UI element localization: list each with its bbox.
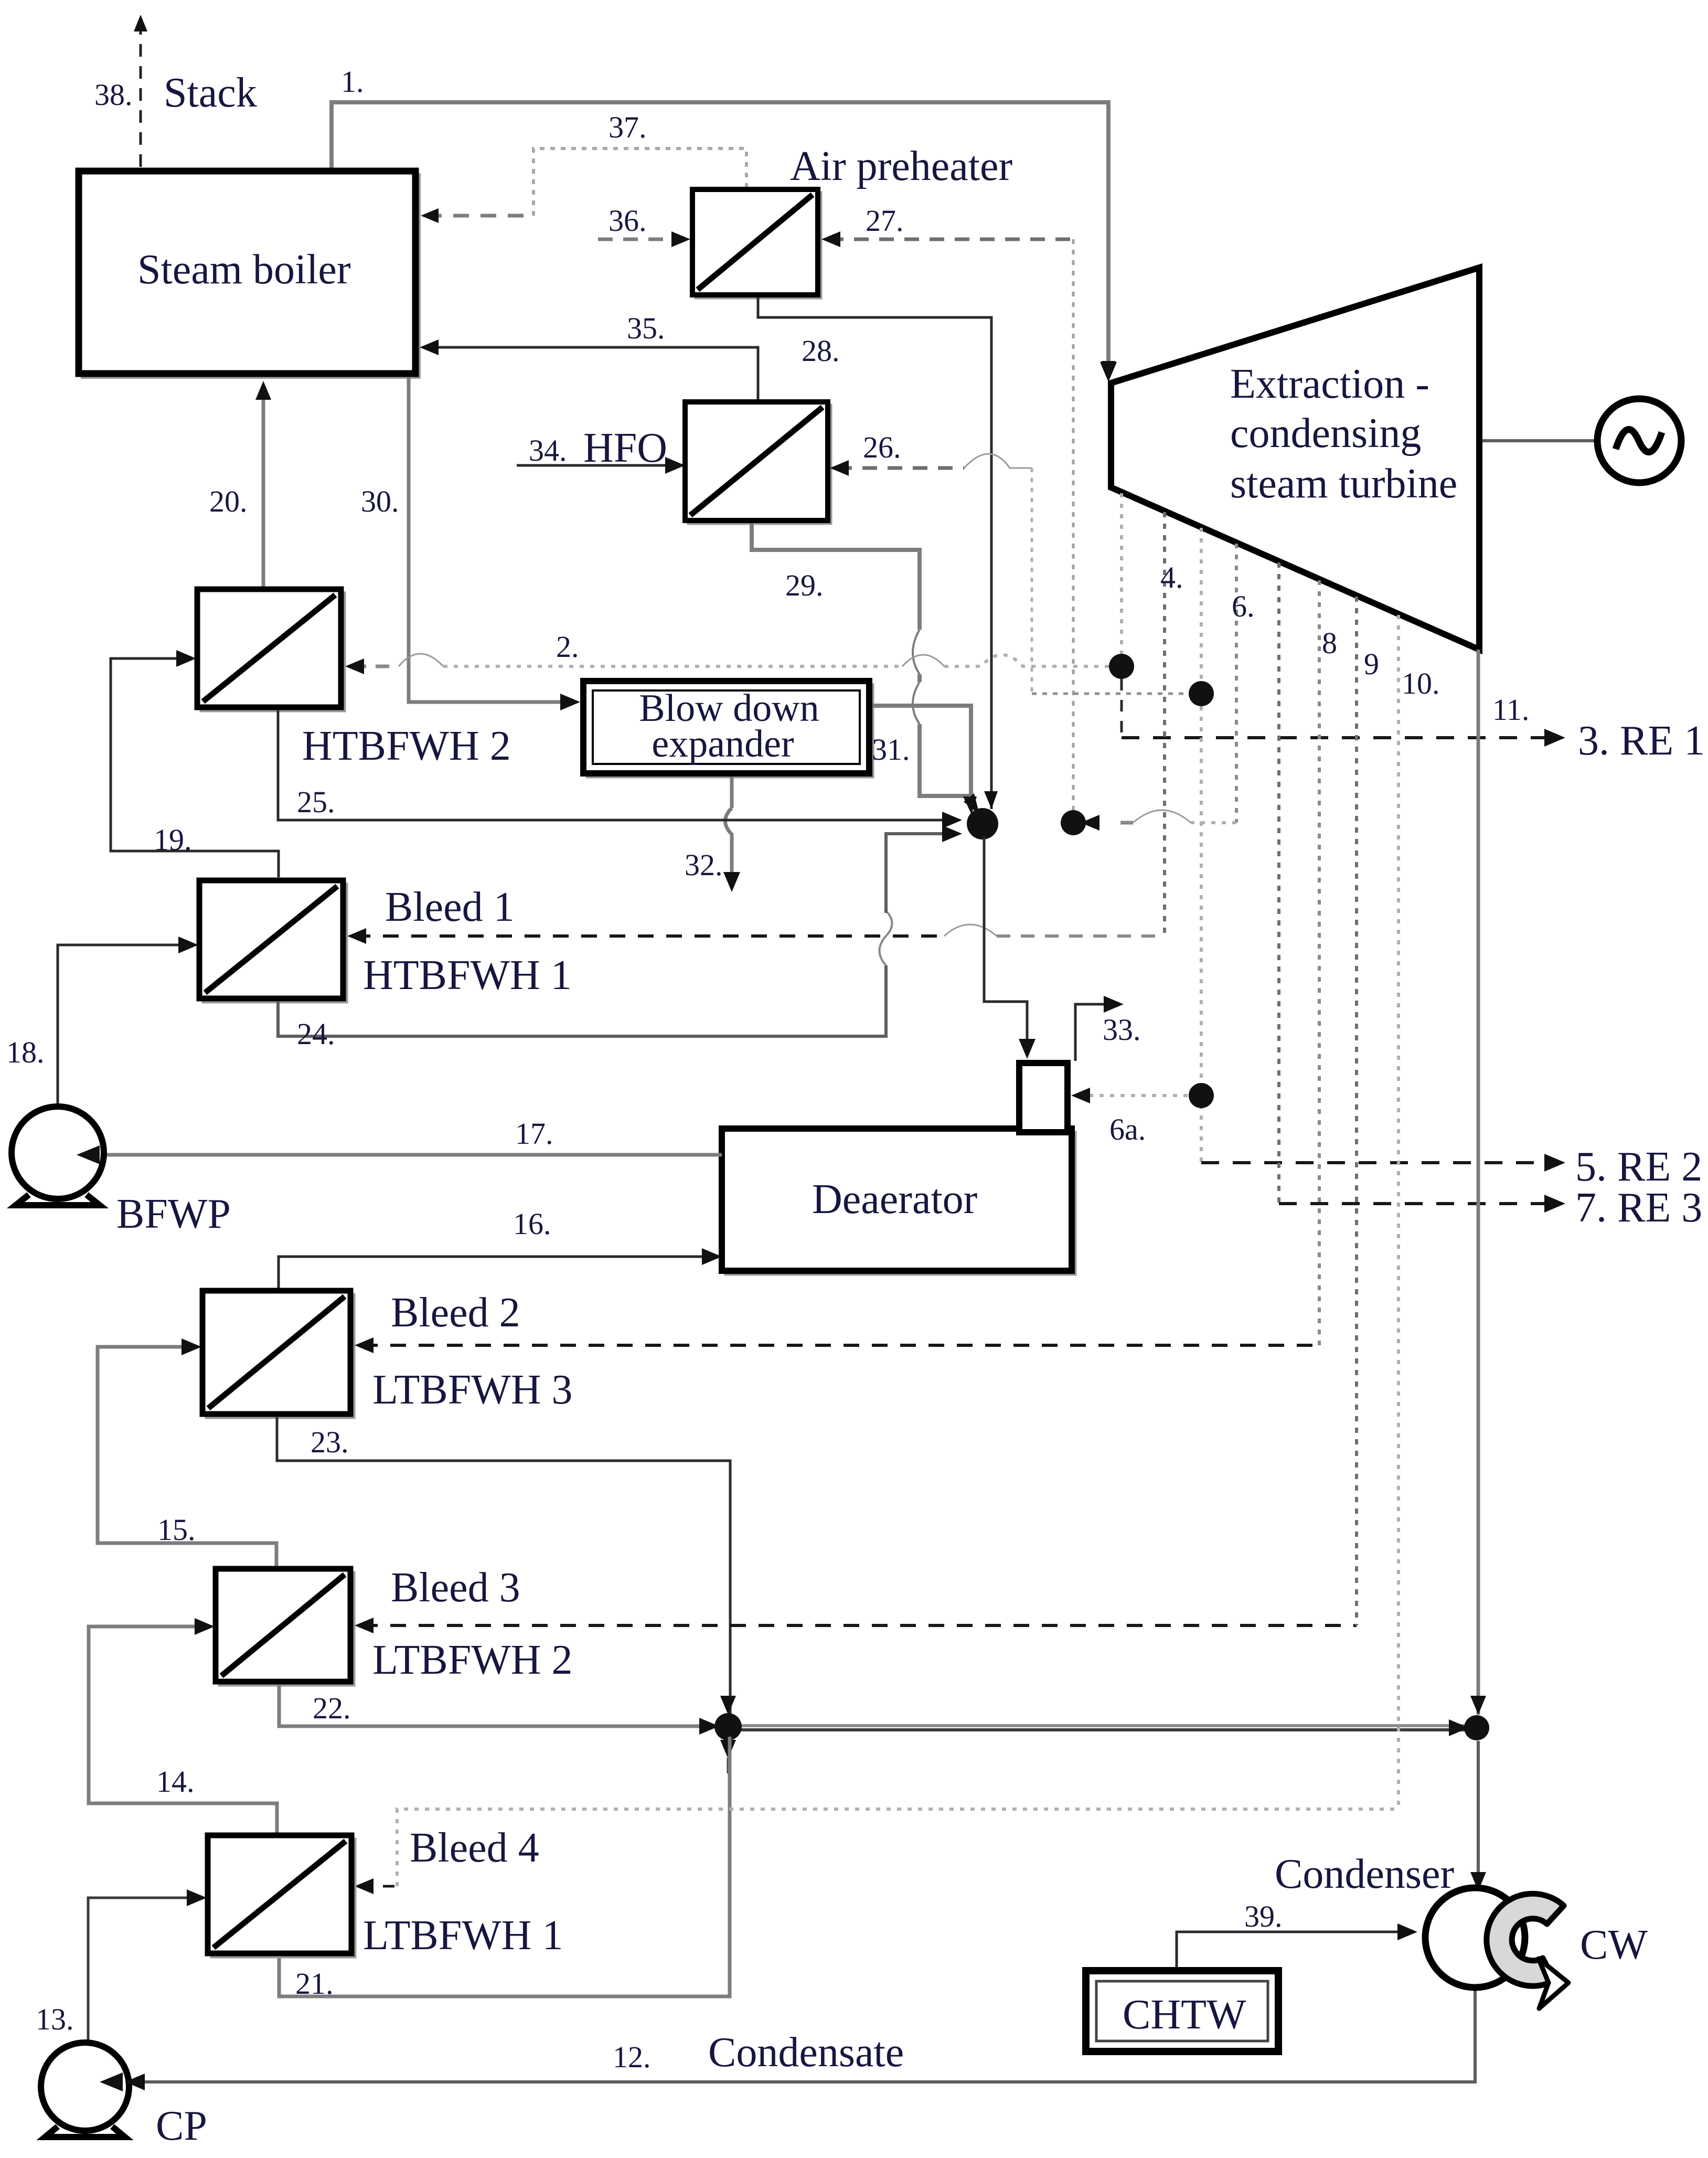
- junction dot 6a: [1189, 1083, 1214, 1108]
- wire drains to condenser double line: [740, 1719, 1469, 1736]
- wire stream 6a to deaerator head: [1071, 1088, 1191, 1103]
- extraction condensing steam turbine: [1100, 268, 1479, 650]
- wire stream 7 RE 3 dashed: [1279, 1195, 1565, 1213]
- svg-text:LTBFWH 3: LTBFWH 3: [372, 1367, 573, 1413]
- svg-text:38.: 38.: [94, 78, 133, 112]
- deaerator: [722, 1129, 1075, 1274]
- svg-text:13.: 13.: [36, 2002, 74, 2036]
- HTBFWH 2: [197, 589, 345, 711]
- wire stream 24 HTBFWH1 drain: [278, 825, 962, 1036]
- svg-text:Bleed 1: Bleed 1: [385, 884, 515, 930]
- svg-text:LTBFWH 1: LTBFWH 1: [363, 1912, 563, 1959]
- svg-text:3. RE 1: 3. RE 1: [1578, 718, 1705, 764]
- svg-text:Deaerator: Deaerator: [812, 1176, 977, 1222]
- junction dot main drain mix: [967, 791, 998, 839]
- wire stream 23 LTBFWH3 drain: [277, 1417, 730, 1717]
- svg-text:30.: 30.: [361, 484, 399, 518]
- svg-text:22.: 22.: [313, 1691, 351, 1725]
- wire drain mix to deaerator head: [984, 836, 1036, 1059]
- svg-text:24.: 24.: [297, 1017, 335, 1051]
- svg-text:16.: 16.: [513, 1207, 551, 1241]
- extraction line 8 to bleed 2: [1318, 580, 1321, 1345]
- svg-text:39.: 39.: [1244, 1899, 1283, 1933]
- LTBFWH 2: [216, 1569, 354, 1685]
- wire stream 15 LTBFWH2 to LTBFWH3: [98, 1338, 276, 1567]
- junction dot stream 26 on extraction line: [1189, 681, 1214, 706]
- svg-text:21.: 21.: [295, 1966, 334, 2001]
- generator lead: [1482, 439, 1597, 442]
- wire bleed 4 dashed: [355, 1809, 1399, 1894]
- extraction line 6 to steam users: [1081, 544, 1236, 831]
- wire stream 26 steam to HFO heater: [830, 454, 1201, 694]
- junction dot stream 27: [1061, 810, 1086, 835]
- wire stream 13 CP to LTBFWH1: [88, 1889, 207, 2041]
- extraction line 10 to bleed 4: [1397, 615, 1400, 1809]
- svg-text:18.: 18.: [6, 1035, 45, 1069]
- svg-text:1.: 1.: [341, 65, 364, 99]
- wire stream 27 steam to air preheater: [821, 231, 1073, 816]
- svg-text:condensing: condensing: [1230, 410, 1421, 456]
- svg-text:12.: 12.: [613, 2040, 651, 2074]
- svg-text:LTBFWH 2: LTBFWH 2: [372, 1637, 573, 1683]
- svg-text:14.: 14.: [156, 1764, 195, 1799]
- wire stream 16 LTBFWH3 to deaerator: [279, 1248, 722, 1289]
- wire bleed 2 dashed: [355, 1337, 1319, 1353]
- wire stream 39 CHTW to condenser: [1177, 1923, 1417, 1971]
- svg-text:15.: 15.: [157, 1513, 196, 1547]
- svg-text:29.: 29.: [785, 568, 824, 602]
- svg-text:6.: 6.: [1232, 589, 1255, 623]
- condenser: [1425, 1888, 1525, 1987]
- svg-text:23.: 23.: [311, 1425, 349, 1459]
- wire stream 14 LTBFWH1 to LTBFWH2: [89, 1618, 277, 1833]
- extraction line 4: [1120, 493, 1123, 738]
- LTBFWH 1: [208, 1835, 355, 1957]
- wire stream 28 hot air: [758, 297, 991, 809]
- svg-text:26.: 26.: [863, 430, 901, 464]
- wire stream 20 feedwater to boiler: [255, 381, 271, 588]
- svg-text:20.: 20.: [209, 484, 248, 518]
- svg-text:33.: 33.: [1103, 1013, 1141, 1047]
- svg-text:11.: 11.: [1492, 693, 1529, 727]
- air preheater: [692, 189, 821, 298]
- svg-text:9: 9: [1364, 647, 1379, 681]
- svg-text:CW: CW: [1580, 1922, 1648, 1968]
- svg-text:Bleed 3: Bleed 3: [391, 1565, 520, 1611]
- svg-text:7. RE 3: 7. RE 3: [1575, 1185, 1702, 1231]
- svg-text:Stack: Stack: [164, 70, 257, 116]
- svg-text:25.: 25.: [297, 785, 335, 819]
- svg-text:32.: 32.: [685, 848, 723, 882]
- wire stream 18 BFWP to HTBFWH1: [58, 937, 198, 1104]
- wire stream 32 expander drain: [723, 777, 740, 892]
- svg-text:4.: 4.: [1160, 560, 1183, 594]
- svg-text:CP: CP: [156, 2103, 207, 2149]
- wire stream 37 flue gas to air preheater: [421, 148, 746, 223]
- wire stream 33 deaerator vent: [1075, 996, 1124, 1061]
- wire stream 22 LTBFWH2 drain: [279, 1685, 719, 1735]
- CP pump: [41, 2043, 129, 2137]
- wire bleed 1 dashed: [347, 924, 1165, 944]
- svg-text:35.: 35.: [627, 311, 665, 345]
- svg-text:expander: expander: [652, 722, 794, 766]
- svg-text:CHTW: CHTW: [1123, 1992, 1246, 2038]
- svg-text:HTBFWH 1: HTBFWH 1: [363, 952, 572, 998]
- svg-text:Condensate: Condensate: [708, 2029, 904, 2076]
- svg-text:31.: 31.: [872, 732, 910, 767]
- svg-text:27.: 27.: [866, 204, 904, 238]
- CHTW box: [1086, 1971, 1278, 2051]
- wire stream 5 RE 2 dashed: [1201, 1154, 1565, 1172]
- svg-text:HTBFWH 2: HTBFWH 2: [302, 723, 511, 769]
- svg-text:2.: 2.: [556, 630, 579, 664]
- svg-text:28.: 28.: [802, 334, 840, 368]
- svg-text:34.: 34.: [529, 433, 567, 467]
- wire stream 38 stack dashed: [134, 15, 147, 167]
- svg-text:37.: 37.: [609, 110, 647, 144]
- wire stream 3 RE 1 dashed: [1122, 729, 1565, 747]
- deaerator head: [1019, 1063, 1067, 1132]
- extraction line to bleed 1: [1163, 512, 1166, 936]
- generator: [1597, 399, 1681, 483]
- svg-text:10.: 10.: [1402, 666, 1440, 700]
- svg-text:Steam boiler: Steam boiler: [137, 247, 351, 293]
- steam boiler: [79, 171, 419, 377]
- junction dot stream 2: [1109, 654, 1134, 679]
- HTBFWH 1: [199, 880, 347, 1002]
- extraction line 9 to bleed 3: [1355, 597, 1358, 1625]
- junction valve drains: [714, 1696, 742, 1773]
- wire stream 29 heated HFO: [752, 523, 977, 814]
- svg-text:BFWP: BFWP: [116, 1191, 231, 1237]
- junction condenser inlet: [1464, 1715, 1489, 1891]
- svg-text:17.: 17.: [515, 1117, 553, 1151]
- wire stream 31 expander vapour to mix: [872, 706, 979, 814]
- svg-text:8: 8: [1322, 626, 1337, 660]
- wire stream 25 HTBFWH2 drain: [278, 710, 962, 828]
- wire stream 21 LTBFWH1 drain: [279, 1737, 730, 1996]
- wire stream 12 condensate: [125, 1990, 1475, 2090]
- BFWP pump: [12, 1107, 104, 1205]
- svg-text:Condenser: Condenser: [1275, 1851, 1454, 1897]
- wire stream 2 extraction to HTBFWH2: [345, 654, 1109, 674]
- wire stream 35 HFO to boiler: [420, 339, 758, 400]
- wire stream 1 boiler to turbine: [332, 102, 1116, 379]
- extraction line 7 RE3: [1277, 562, 1280, 1204]
- HFO heater: [685, 402, 831, 524]
- wire bleed 3 dashed: [355, 1618, 1357, 1633]
- svg-text:6a.: 6a.: [1109, 1112, 1146, 1146]
- wire stream 36 air in dashed: [598, 231, 690, 247]
- blow down expander: [583, 681, 873, 777]
- wire stream 19 HTBFWH1 to HTBFWH2: [111, 650, 279, 877]
- LTBFWH 3: [202, 1291, 354, 1418]
- svg-text:36.: 36.: [609, 204, 647, 238]
- extraction line 6a RE2: [1200, 528, 1203, 1163]
- CW cooling water arrow: [1487, 1894, 1568, 2008]
- svg-text:5. RE 2: 5. RE 2: [1575, 1144, 1702, 1190]
- wire stream 17 deaerator to BFWP: [70, 1146, 722, 1163]
- svg-text:Bleed 2: Bleed 2: [391, 1290, 520, 1336]
- svg-text:HFO: HFO: [583, 425, 667, 471]
- svg-text:19.: 19.: [154, 823, 192, 857]
- wire stream 11 turbine exhaust: [1470, 650, 1486, 1715]
- svg-text:Bleed 4: Bleed 4: [410, 1825, 539, 1871]
- wire stream 30 blowdown from boiler: [409, 377, 580, 710]
- wire stream 34 HFO supply: [517, 457, 685, 474]
- svg-text:Extraction -: Extraction -: [1230, 361, 1429, 407]
- svg-text:steam turbine: steam turbine: [1230, 461, 1457, 507]
- svg-text:Air preheater: Air preheater: [790, 143, 1012, 189]
